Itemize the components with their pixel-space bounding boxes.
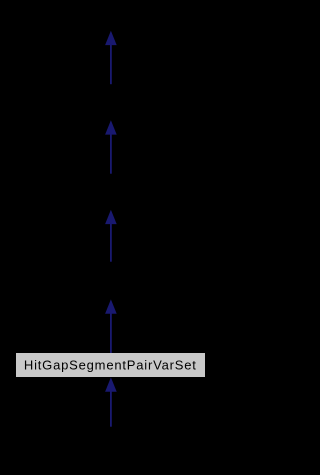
inheritance arrow 5 (from derived class below) <box>105 377 117 426</box>
inheritance arrow 3 <box>105 210 117 262</box>
node HitGapSegmentPairVarSet (highlighted class box) <box>16 353 205 377</box>
inheritance arrow 2 <box>105 120 117 173</box>
svg-text:HitGapSegmentPairVarSet: HitGapSegmentPairVarSet <box>24 357 196 372</box>
inheritance arrow 4 (into highlighted node) <box>105 299 117 353</box>
inheritance arrow 1 (topmost ancestor link) <box>105 31 117 84</box>
